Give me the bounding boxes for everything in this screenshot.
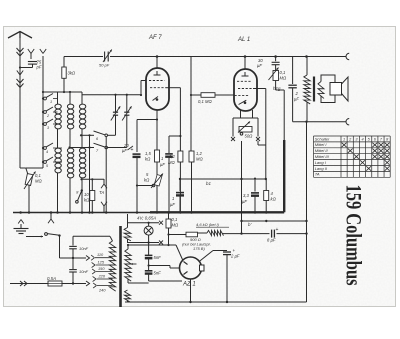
switch 3 bbox=[44, 123, 47, 126]
potentiometer 0.1M volume bbox=[20, 167, 26, 169]
svg-text:µF: µF bbox=[257, 63, 262, 68]
wire field row bbox=[222, 233, 270, 235]
transformer winding heater AZ1 bbox=[125, 290, 131, 302]
svg-text:0,1: 0,1 bbox=[35, 173, 41, 178]
svg-text:0,5A: 0,5A bbox=[47, 276, 56, 281]
svg-text:3kΩ: 3kΩ bbox=[68, 71, 76, 76]
svg-text:10nF: 10nF bbox=[79, 246, 89, 251]
wire AZ1 bottom bbox=[190, 279, 192, 302]
wire 1uF to 1.2M bbox=[169, 135, 180, 137]
svg-text:+: + bbox=[233, 248, 236, 253]
coil L3a bbox=[81, 92, 83, 104]
wire AF7 anode down bbox=[179, 88, 181, 151]
svg-text:Schalter: Schalter bbox=[315, 136, 330, 141]
wire 5nF mid to AZ1 bbox=[149, 265, 170, 267]
connector output bottom bbox=[346, 119, 349, 125]
wire AL1 grid out right bbox=[253, 88, 266, 90]
wire bottom return bbox=[125, 301, 307, 303]
antenna socket A1 bbox=[28, 49, 31, 54]
tube AL1 envelope bbox=[234, 69, 257, 111]
capacitor 1uF AF7 bbox=[168, 136, 170, 153]
wire switch block mid taps bbox=[53, 98, 58, 100]
transformer output core bbox=[313, 77, 315, 102]
node X left bbox=[231, 137, 235, 141]
wire AF7 cathode down bbox=[156, 110, 158, 150]
capacitor 5nF lower bbox=[148, 259, 150, 271]
svg-text:4,6 kΩ (bei l): 4,6 kΩ (bei l) bbox=[196, 222, 219, 227]
socket TA lower bbox=[103, 206, 105, 213]
capacitor 75pF bbox=[28, 61, 37, 63]
resistor 4k bbox=[265, 179, 267, 191]
svg-text:0,1 MΩ: 0,1 MΩ bbox=[198, 99, 212, 104]
resistor 1.2M bbox=[178, 151, 183, 162]
wire main chassis bus thick bbox=[150, 211, 284, 213]
svg-text:MΩ: MΩ bbox=[172, 223, 179, 228]
svg-text:µF: µF bbox=[294, 97, 299, 102]
svg-text:µF: µF bbox=[160, 162, 165, 167]
resistor 0.1M hum bbox=[168, 213, 170, 220]
connector output top bbox=[346, 53, 349, 59]
AL1 cathode bbox=[239, 100, 247, 104]
capacitor 1uF coupling bbox=[179, 179, 181, 191]
svg-text:50Ω: 50Ω bbox=[245, 134, 254, 139]
resistor 4.6k field bbox=[198, 232, 208, 234]
wire right HT riser bbox=[306, 122, 308, 302]
wire 3k bottom bbox=[63, 78, 65, 92]
svg-text:µF: µF bbox=[122, 148, 127, 153]
wire b1 node bbox=[180, 178, 266, 180]
svg-text:240: 240 bbox=[98, 288, 106, 293]
wire pot to switch rail bbox=[26, 167, 43, 169]
svg-text:1: 1 bbox=[172, 196, 174, 201]
wire 5k to cathode line bbox=[137, 185, 152, 187]
svg-text:159 Columbus: 159 Columbus bbox=[342, 185, 367, 286]
svg-text:1,2: 1,2 bbox=[196, 151, 202, 156]
svg-text:5nF: 5nF bbox=[154, 255, 162, 260]
wire 5nF bottom bbox=[148, 274, 150, 281]
wire socket A2 down bbox=[42, 56, 44, 92]
wire 75pF to lead bbox=[20, 67, 33, 69]
trimmer capacitor 50pF bbox=[104, 52, 106, 62]
wire AF7 grid cap bbox=[156, 57, 158, 69]
coil L3b bbox=[81, 129, 83, 148]
switch 7 bbox=[70, 147, 95, 149]
svg-text:AF 7: AF 7 bbox=[148, 35, 162, 41]
wire AL1 legs bbox=[240, 110, 242, 118]
primary tap 125 bbox=[96, 264, 113, 266]
primary tap 110 bbox=[95, 257, 113, 259]
svg-text:0,1: 0,1 bbox=[280, 70, 286, 75]
wire 3k top bbox=[63, 57, 65, 68]
svg-text:150: 150 bbox=[98, 266, 105, 271]
svg-text:b1: b1 bbox=[206, 181, 211, 186]
svg-text:Lang I: Lang I bbox=[315, 160, 327, 165]
fuse 0.5A bbox=[10, 283, 48, 285]
svg-text:Mittel II: Mittel II bbox=[315, 148, 329, 153]
capacitor 2uF anode bbox=[292, 57, 294, 85]
capacitor 5nF upper bbox=[145, 254, 153, 256]
svg-text:MΩ: MΩ bbox=[196, 157, 203, 162]
svg-text:1: 1 bbox=[343, 137, 345, 141]
wire AL1 grid riser bbox=[265, 89, 267, 180]
svg-text:1: 1 bbox=[161, 156, 163, 161]
svg-text:Lang II: Lang II bbox=[315, 166, 328, 171]
node speaker top bbox=[305, 55, 308, 58]
rectifier tube AZ1 bbox=[180, 257, 202, 279]
transformer primary bbox=[110, 236, 113, 241]
wire HT bottom to AZ1 bbox=[128, 282, 149, 284]
switch 6 bbox=[81, 134, 94, 136]
coil L2a bbox=[69, 92, 71, 104]
wire AZ1 cathode to 2uF bbox=[200, 251, 213, 262]
capacitor 10nF upper bbox=[72, 236, 74, 245]
AL1 grid dashes bbox=[237, 80, 252, 82]
svg-text:175 B): 175 B) bbox=[193, 246, 205, 251]
wire AF7 anode right bbox=[166, 87, 181, 89]
potentiometer 50 ohm bbox=[232, 118, 234, 137]
HT center tap bbox=[131, 263, 137, 265]
resistor 10k bbox=[91, 179, 93, 190]
svg-text:3,3: 3,3 bbox=[243, 193, 249, 198]
svg-text:µF: µF bbox=[170, 202, 175, 207]
switch table bbox=[314, 136, 391, 177]
wire b' feed bbox=[242, 220, 307, 222]
svg-text:MΩ: MΩ bbox=[168, 160, 175, 165]
resistor 1M bbox=[190, 57, 192, 152]
svg-text:kΩ: kΩ bbox=[144, 178, 150, 183]
svg-text:8 µF: 8 µF bbox=[267, 238, 276, 243]
wire coil top rail bbox=[43, 91, 82, 93]
svg-text:110: 110 bbox=[97, 252, 104, 257]
svg-text:AZ 1: AZ 1 bbox=[182, 282, 196, 288]
switch 5 bbox=[44, 161, 47, 164]
svg-text:10nF: 10nF bbox=[79, 269, 89, 274]
wire 0.1M to AL1 bbox=[215, 94, 234, 96]
wire switch rail bbox=[42, 92, 44, 168]
resistor 900 ohm bbox=[169, 234, 187, 236]
wire mains switch down bbox=[59, 236, 61, 258]
wire heater riser bbox=[283, 90, 285, 140]
svg-text:Mittel I: Mittel I bbox=[315, 142, 328, 147]
transformer output secondary bbox=[318, 82, 324, 99]
coil L1b bbox=[57, 129, 59, 148]
primary tap 240 bbox=[97, 285, 113, 287]
potentiometer 0.1M screen bbox=[275, 65, 277, 71]
wire antenna lead bbox=[19, 38, 21, 168]
wire switch rail 89.5 bbox=[89, 135, 91, 212]
capacitor 2uF reservoir bbox=[223, 251, 231, 253]
svg-text:Mittel III: Mittel III bbox=[315, 154, 330, 159]
wire HT winding bottom bbox=[127, 279, 129, 283]
svg-text:kΩ: kΩ bbox=[145, 157, 151, 162]
node antenna lead junction bbox=[19, 66, 21, 68]
wire heater riser thick bbox=[283, 140, 285, 212]
wire secondary to voice coil top bbox=[321, 75, 335, 83]
wire AL1 top bbox=[244, 57, 246, 70]
svg-text:MΩ: MΩ bbox=[280, 76, 287, 81]
svg-text:+: + bbox=[276, 227, 279, 233]
svg-text:10: 10 bbox=[84, 192, 89, 197]
variable capacitor C-tune1 bbox=[115, 95, 117, 113]
svg-text:50 pF: 50 pF bbox=[99, 63, 110, 68]
antenna plug chevrons bbox=[17, 48, 24, 52]
wire lamp bottom bbox=[127, 242, 159, 244]
wire TA feed bbox=[82, 178, 105, 180]
wire top grid bus bbox=[64, 56, 103, 58]
resistor 0.1M grid AL1 bbox=[191, 94, 201, 96]
antenna socket A2 bbox=[40, 49, 43, 54]
variable capacitor C-tune2 bbox=[126, 95, 128, 113]
table X marks bbox=[342, 143, 390, 171]
AF7 cathode bbox=[153, 97, 159, 101]
svg-text:kΩ: kΩ bbox=[271, 197, 277, 202]
resistor 3k bbox=[62, 67, 66, 78]
wire AZ1 anode feed bbox=[128, 244, 176, 246]
svg-text:MΩ: MΩ bbox=[35, 179, 42, 184]
wire 50ohm right down bbox=[257, 141, 259, 145]
antenna bbox=[8, 32, 32, 39]
AF7 top grid electrode bbox=[156, 71, 158, 75]
AF7 grid dashes bbox=[149, 80, 165, 82]
primary tap 150 bbox=[96, 271, 113, 273]
node X lamp top bbox=[159, 221, 163, 225]
bus junction nodes bbox=[19, 211, 22, 214]
node AL1 top bbox=[244, 55, 247, 58]
transformer core bbox=[119, 226, 122, 307]
node grid cap AF7 bbox=[156, 55, 159, 58]
svg-text:kΩ: kΩ bbox=[84, 198, 90, 203]
wire AF7 grid out left bbox=[141, 80, 146, 82]
svg-text:1: 1 bbox=[50, 100, 52, 104]
svg-text:pF: pF bbox=[36, 65, 42, 70]
socket TA left bbox=[50, 213, 52, 220]
node X lamp bottom bbox=[159, 241, 163, 245]
svg-text:220: 220 bbox=[98, 274, 106, 279]
svg-text:TA: TA bbox=[99, 190, 104, 195]
svg-text:4: 4 bbox=[46, 150, 48, 154]
svg-text:4: 4 bbox=[361, 137, 363, 141]
transformer output primary bbox=[306, 57, 308, 76]
switch 4 bbox=[44, 147, 47, 150]
wire secondary to voice coil bottom bbox=[321, 95, 335, 103]
wire speaker bottom bbox=[293, 121, 346, 123]
dial lamp bbox=[148, 223, 150, 226]
speaker cone bbox=[342, 77, 349, 101]
svg-text:5nF: 5nF bbox=[154, 271, 162, 276]
transformer winding HT bbox=[127, 245, 129, 249]
wire mains to primary bbox=[73, 235, 110, 237]
svg-text:0,1: 0,1 bbox=[172, 217, 178, 222]
svg-text:1,2: 1,2 bbox=[169, 154, 175, 159]
svg-text:4V; 0,65A: 4V; 0,65A bbox=[137, 216, 156, 221]
node coil rail left bbox=[42, 91, 44, 93]
coil L1a bbox=[57, 92, 59, 104]
transformer winding 4V bbox=[127, 214, 129, 223]
switch 1 bbox=[44, 97, 47, 100]
ground bbox=[18, 220, 21, 224]
svg-text:1,5: 1,5 bbox=[145, 151, 151, 156]
switch mains bbox=[26, 236, 43, 238]
svg-text:µF: µF bbox=[242, 199, 247, 204]
wire pot down bbox=[275, 81, 277, 91]
node 30uF top bbox=[274, 55, 277, 58]
capacitor 8uF bbox=[271, 230, 273, 238]
svg-text:+: + bbox=[131, 147, 134, 153]
wire AF7 aux left bbox=[137, 119, 157, 121]
AL1 top electrode bbox=[244, 72, 246, 76]
svg-text:TA: TA bbox=[315, 172, 320, 177]
svg-text:125: 125 bbox=[98, 260, 105, 265]
switch 8 bbox=[81, 189, 83, 191]
socket TA upper bbox=[103, 179, 105, 184]
wire lamp top bbox=[127, 222, 159, 224]
wire main chassis bus bbox=[13, 212, 150, 214]
svg-text:b': b' bbox=[248, 222, 251, 227]
speaker voice coil bbox=[330, 83, 342, 96]
svg-text:2 µF: 2 µF bbox=[230, 254, 240, 259]
switch 2 bbox=[44, 111, 47, 114]
tube AF7 envelope bbox=[146, 68, 169, 110]
capacitor 3.3uF bbox=[254, 179, 256, 192]
wire varcap rail bbox=[82, 94, 141, 96]
capacitor 10nF lower bbox=[72, 249, 74, 269]
wire AL1 cathode down bbox=[241, 141, 243, 234]
svg-text:AL 1: AL 1 bbox=[237, 37, 250, 43]
node X right bbox=[256, 137, 260, 141]
wire switch rail 106.3 bbox=[105, 137, 107, 213]
wire fuse to taps bbox=[62, 283, 86, 285]
coil L2b bbox=[69, 129, 71, 148]
primary tap 220 bbox=[97, 278, 113, 280]
